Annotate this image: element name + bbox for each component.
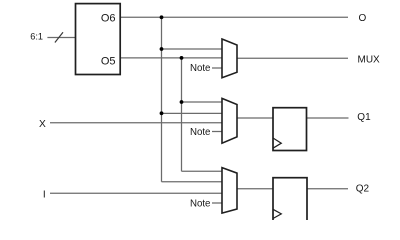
svg-text:O: O: [359, 13, 367, 24]
svg-text:Note: Note: [190, 127, 210, 138]
svg-text:Q2: Q2: [356, 184, 370, 195]
svg-text:Q1: Q1: [357, 112, 371, 123]
svg-text:6:1: 6:1: [30, 32, 43, 42]
svg-text:Note: Note: [190, 199, 210, 210]
svg-text:X: X: [39, 119, 46, 130]
svg-text:O6: O6: [101, 13, 116, 25]
svg-text:O5: O5: [101, 56, 116, 68]
svg-text:MUX: MUX: [358, 54, 381, 65]
svg-text:I: I: [43, 190, 46, 201]
svg-text:Note: Note: [190, 63, 210, 74]
